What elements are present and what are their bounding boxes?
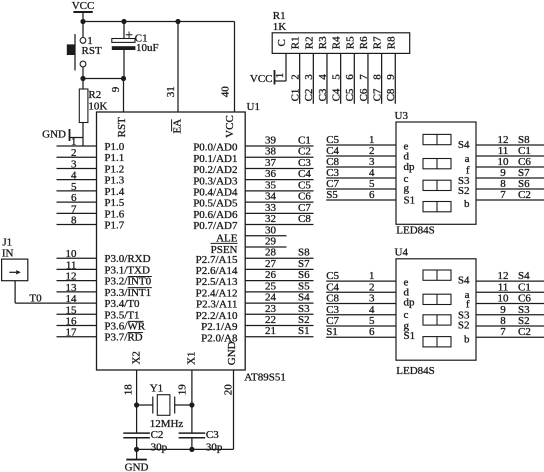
svg-text:C6: C6: [298, 191, 311, 203]
element label R3 (rotated, in R1): [317, 36, 329, 49]
node C2 (pin 38): [298, 146, 311, 158]
connector J1: [2, 259, 28, 281]
pin label S4 (U4): [458, 275, 470, 287]
svg-text:dp: dp: [404, 161, 416, 173]
svg-text:2: 2: [71, 147, 77, 159]
svg-text:34: 34: [265, 191, 277, 203]
resistor R2 10K: [79, 79, 107, 147]
wire pin 28 stub: [245, 247, 313, 259]
svg-text:2: 2: [289, 74, 301, 80]
svg-text:7: 7: [500, 189, 506, 201]
svg-text:Y1: Y1: [150, 382, 163, 394]
label J1: [2, 236, 12, 248]
wire pin 26 stub: [245, 269, 313, 281]
svg-text:17: 17: [66, 327, 78, 339]
svg-text:1: 1: [369, 270, 375, 282]
svg-text:C2: C2: [518, 326, 531, 338]
pin label P1.3: [104, 175, 124, 187]
svg-text:P2.2/A10: P2.2/A10: [196, 310, 238, 322]
svg-text:10K: 10K: [88, 101, 107, 113]
pin name X2 (rotated): [131, 351, 143, 364]
wire pin 35 stub: [245, 179, 313, 191]
node C5 (U3 pin 1): [326, 134, 339, 146]
wire pin 17 stub: [57, 327, 97, 339]
svg-text:P3.4/T0: P3.4/T0: [104, 298, 140, 310]
svg-text:4: 4: [71, 170, 77, 182]
pin label S3 (U4): [458, 309, 470, 321]
pin label P0.4/AD4: [193, 186, 238, 198]
pin label c (U3): [404, 173, 409, 185]
wire U4 pin 12: [476, 270, 544, 282]
svg-text:R7: R7: [372, 36, 384, 49]
node C4 (U4 pin 2): [326, 281, 339, 293]
node C4 (U3 pin 2): [326, 145, 339, 157]
label U1: [247, 101, 260, 113]
svg-text:40: 40: [219, 86, 231, 98]
svg-text:2: 2: [369, 281, 375, 293]
node S6 (U3 pin 8): [518, 178, 530, 190]
label R1: [273, 10, 286, 22]
pin label g (U3): [404, 182, 410, 194]
svg-text:C7: C7: [371, 88, 383, 101]
wire pin 33 stub: [245, 202, 313, 214]
svg-text:AT89S51: AT89S51: [244, 372, 286, 384]
svg-text:38: 38: [265, 146, 277, 158]
svg-text:P2.1/A9: P2.1/A9: [201, 321, 238, 333]
svg-text:C3: C3: [317, 88, 329, 101]
node S1 (U4 pin 6): [326, 326, 338, 338]
pin label e (U3): [404, 141, 409, 153]
pin label P0.6/AD6: [193, 209, 238, 221]
pin label b (U4): [464, 334, 470, 346]
svg-text:30p: 30p: [151, 442, 168, 454]
element label R7 (rotated, in R1): [372, 36, 384, 49]
svg-text:C8: C8: [385, 88, 397, 101]
pin label P3.7/RD: [104, 332, 143, 344]
svg-text:18: 18: [123, 384, 135, 396]
svg-text:C1: C1: [289, 89, 301, 102]
svg-text:VCC: VCC: [72, 0, 95, 12]
node S1 (pin 21): [298, 325, 310, 337]
svg-text:S4: S4: [458, 275, 470, 287]
label LED84S (U4): [396, 365, 435, 377]
svg-text:20: 20: [223, 384, 235, 396]
junction at VCC rail and C1: [121, 19, 126, 24]
svg-text:4: 4: [317, 74, 329, 80]
node S5 (U3 pin 6): [326, 189, 338, 201]
svg-text:26: 26: [265, 269, 277, 281]
svg-text:C5: C5: [326, 270, 339, 282]
wire J1 to T0: [14, 280, 16, 282]
svg-text:P1.1: P1.1: [104, 152, 124, 164]
node C5 (rotated label): [344, 88, 356, 101]
svg-text:19: 19: [177, 384, 189, 396]
pin label P0.0/AD0: [193, 142, 238, 154]
svg-text:11: 11: [498, 281, 509, 293]
svg-text:16: 16: [66, 316, 78, 328]
display U4 body LED84S: [396, 259, 476, 360]
pushbutton S1 RST: [67, 22, 102, 79]
wire T0 from J1 to pin 14: [15, 281, 96, 305]
pin label P3.4/T0: [104, 298, 140, 310]
svg-text:S4: S4: [458, 139, 470, 151]
svg-text:R4: R4: [331, 36, 343, 49]
svg-text:37: 37: [265, 157, 277, 169]
svg-text:C3: C3: [326, 304, 339, 316]
node C3 (U3 pin 4): [326, 167, 339, 179]
svg-text:g: g: [404, 182, 410, 194]
svg-text:U3: U3: [395, 110, 409, 122]
svg-text:S3: S3: [298, 303, 310, 315]
wire pin 36 stub: [245, 168, 313, 180]
svg-text:12: 12: [66, 271, 77, 283]
svg-text:C2: C2: [303, 89, 315, 102]
svg-text:R5: R5: [344, 36, 356, 49]
svg-text:6: 6: [369, 326, 375, 338]
wire R1 pin 4: [317, 53, 329, 103]
pin label P0.3/AD3: [193, 175, 238, 187]
svg-text:S7: S7: [298, 258, 310, 270]
node C8 (pin 32): [298, 213, 311, 225]
svg-text:9: 9: [385, 74, 397, 80]
svg-text:R2: R2: [88, 89, 101, 101]
svg-text:S2: S2: [458, 320, 470, 332]
wire pin 7 stub: [57, 203, 97, 215]
pin label dp (U3): [404, 161, 416, 173]
svg-text:b: b: [464, 198, 470, 210]
pin label e (U4): [404, 276, 409, 288]
element label R2 (rotated, in R1): [303, 36, 315, 49]
svg-text:S8: S8: [298, 247, 310, 259]
pin label f (U4): [466, 299, 470, 311]
wire U3 pin 10: [476, 156, 544, 168]
wire R1 pin 7: [358, 53, 370, 103]
svg-text:P1.5: P1.5: [104, 197, 124, 209]
svg-text:10: 10: [498, 293, 510, 305]
wire R1 pin 5: [330, 53, 342, 103]
wire pin 23 stub: [245, 303, 313, 315]
node T0: [29, 293, 42, 305]
svg-text:GND: GND: [226, 341, 238, 365]
wire pin 12 stub: [57, 271, 97, 283]
svg-text:5: 5: [330, 74, 342, 80]
wire pin 10 stub: [57, 248, 97, 260]
svg-text:28: 28: [265, 247, 277, 259]
svg-text:10: 10: [66, 248, 78, 260]
svg-text:9: 9: [500, 304, 506, 316]
pin label g (U4): [404, 320, 410, 332]
wire pin 38 stub: [245, 146, 313, 158]
wire R1 pin 6: [344, 53, 356, 103]
svg-text:S1: S1: [404, 330, 416, 342]
wire pin 4 stub: [57, 170, 97, 182]
svg-text:P1.3: P1.3: [104, 175, 124, 187]
node C3 (U4 pin 4): [326, 304, 339, 316]
pin label P0.7/AD7: [193, 220, 238, 232]
wire U4 pin 4: [326, 304, 396, 316]
element label R5 (rotated, in R1): [344, 36, 356, 49]
svg-text:P1.4: P1.4: [104, 186, 124, 198]
svg-text:24: 24: [265, 292, 277, 304]
svg-text:C5: C5: [344, 88, 356, 101]
node C4 (pin 36): [298, 168, 311, 180]
pin label P2.4/A12: [196, 287, 238, 299]
svg-text:30p: 30p: [206, 442, 223, 454]
wire pin 8 stub: [57, 215, 97, 227]
svg-text:R3: R3: [317, 36, 329, 49]
svg-text:3: 3: [71, 158, 77, 170]
op-amp U1 body AT89S51: [97, 112, 246, 370]
label U3: [395, 110, 409, 122]
svg-text:7: 7: [358, 74, 370, 80]
svg-text:3: 3: [303, 74, 315, 80]
wire U4 pin 1: [326, 270, 396, 282]
svg-text:GND: GND: [42, 129, 66, 141]
wire pin 22 stub: [245, 314, 313, 326]
node S2 (pin 22): [298, 314, 310, 326]
wire U3 pin 12: [476, 134, 544, 146]
svg-text:C5: C5: [298, 179, 311, 191]
wire pin 13 stub: [57, 282, 97, 294]
svg-text:P1.0: P1.0: [104, 141, 124, 153]
wire U4 pin 10: [476, 293, 544, 305]
node C6 (rotated label): [358, 88, 370, 101]
element label R4 (rotated, in R1): [331, 36, 343, 49]
svg-text:29: 29: [265, 235, 277, 247]
node S8 (U3 pin 12): [518, 134, 530, 146]
svg-text:10uF: 10uF: [136, 42, 159, 54]
svg-text:C2: C2: [151, 429, 164, 441]
wire U3 pin 1: [326, 134, 396, 146]
node C1 (pin 39): [298, 135, 311, 147]
svg-text:ALE: ALE: [216, 232, 238, 244]
pin label P3.6/WR: [104, 321, 145, 333]
wire pin 31 EA: [165, 22, 178, 113]
svg-text:S1: S1: [298, 325, 310, 337]
wire pin 29 stub: [245, 235, 286, 247]
pin label P0.2/AD2: [193, 164, 237, 176]
pin label S2 (U3): [458, 185, 470, 197]
svg-text:31: 31: [165, 86, 177, 97]
wire U4 pin 6: [326, 326, 396, 338]
svg-text:5: 5: [369, 315, 375, 327]
svg-text:35: 35: [265, 179, 277, 191]
pin label P1.2: [104, 163, 124, 175]
svg-text:P0.1/AD1: P0.1/AD1: [193, 153, 237, 165]
junction at VCC rail and EA pin 31: [175, 19, 180, 24]
svg-text:7: 7: [71, 203, 77, 215]
node C2 (rotated label): [303, 89, 315, 102]
wire pin 3 stub: [57, 158, 97, 170]
svg-text:P3.5/T1: P3.5/T1: [104, 309, 139, 321]
svg-text:GND: GND: [125, 462, 149, 472]
node S4 (pin 24): [298, 292, 310, 304]
svg-text:1: 1: [71, 136, 77, 148]
node C7 (pin 33): [298, 202, 311, 214]
junction at VCC rail and S1: [80, 19, 85, 24]
wire pin 37 stub: [245, 157, 313, 169]
pin label d (U3): [404, 151, 410, 163]
svg-text:X2: X2: [131, 351, 143, 364]
node C2 (U4 pin 7): [518, 326, 531, 338]
pin label P2.3/A11: [196, 299, 237, 311]
svg-text:9: 9: [110, 86, 122, 92]
capacitor C2 30p: [123, 429, 167, 454]
label IN: [2, 247, 14, 259]
svg-text:32: 32: [265, 213, 276, 225]
svg-text:C6: C6: [358, 88, 370, 101]
pin label d (U4): [404, 286, 410, 298]
svg-text:+: +: [125, 27, 133, 42]
wire pin 15 stub: [57, 304, 97, 316]
pin name EA (rotated, overlined): [172, 119, 184, 134]
wire U3 pin 4: [326, 167, 396, 179]
capacitor C1 10uF: [112, 22, 159, 79]
pin label a (U4): [465, 289, 470, 301]
wire U3 pin 8: [476, 178, 544, 190]
node C6 (U3 pin 10): [518, 156, 531, 168]
svg-text:6: 6: [344, 74, 356, 80]
svg-text:8: 8: [371, 74, 383, 80]
wire R1 pin 1: [274, 53, 286, 81]
svg-text:C2: C2: [518, 189, 531, 201]
pin label S2 (U4): [458, 320, 470, 332]
pin label P3.0/RXD: [104, 253, 150, 265]
svg-text:P0.2/AD2: P0.2/AD2: [193, 164, 237, 176]
svg-text:S5: S5: [326, 189, 338, 201]
svg-text:P2.5/A13: P2.5/A13: [196, 276, 238, 288]
node C8 (U3 pin 3): [326, 156, 339, 168]
wire U4 pin 9: [476, 304, 544, 316]
svg-text:25: 25: [265, 280, 277, 292]
svg-text:C4: C4: [298, 168, 311, 180]
svg-text:23: 23: [265, 303, 277, 315]
label LED84S (U3): [396, 225, 435, 237]
pin name GND (rotated): [226, 341, 238, 365]
pin label b (U3): [464, 198, 470, 210]
node C4 (rotated label): [330, 88, 342, 101]
svg-text:S4: S4: [518, 270, 530, 282]
pin label P1.1: [104, 152, 124, 164]
svg-text:R2: R2: [303, 36, 315, 49]
node C8 (rotated label): [385, 88, 397, 101]
ground GND (bottom): [125, 449, 149, 472]
svg-text:VCC: VCC: [250, 73, 273, 85]
svg-text:C2: C2: [298, 146, 311, 158]
node C5 (U4 pin 1): [326, 270, 339, 282]
node S7 (pin 27): [298, 258, 310, 270]
node C1 (rotated label): [289, 89, 301, 102]
label U4: [395, 246, 409, 258]
wire pin 2 stub: [57, 147, 97, 159]
wire pin 34 stub: [245, 191, 313, 203]
node C8 (U4 pin 3): [326, 293, 339, 305]
wire bottom ground rail: [137, 448, 234, 450]
svg-text:8: 8: [71, 215, 77, 227]
junction C3 at ground rail: [189, 447, 194, 452]
svg-text:12: 12: [498, 270, 509, 282]
svg-text:4: 4: [369, 304, 375, 316]
svg-text:P0.6/AD6: P0.6/AD6: [193, 209, 238, 221]
junction S1-R2 node: [80, 76, 85, 81]
svg-text:15: 15: [66, 304, 78, 316]
pin label P2.6/A14: [196, 265, 238, 277]
svg-text:P0.5/AD5: P0.5/AD5: [193, 198, 238, 210]
element label R6 (rotated, in R1): [358, 36, 370, 49]
svg-text:P3.6/WR: P3.6/WR: [104, 321, 145, 333]
svg-text:S2: S2: [298, 314, 310, 326]
svg-text:C3: C3: [206, 429, 219, 441]
wire pin 6 stub: [57, 192, 97, 204]
wire R1 pin 2: [289, 53, 301, 103]
pin label P1.7: [104, 220, 124, 232]
svg-text:P0.3/AD3: P0.3/AD3: [193, 175, 238, 187]
svg-text:LED84S: LED84S: [396, 365, 435, 377]
wire U3 pin 7: [476, 189, 544, 201]
node S4 (U4 pin 12): [518, 270, 530, 282]
node S7 (U3 pin 9): [518, 167, 530, 179]
svg-text:U4: U4: [395, 246, 409, 258]
svg-text:27: 27: [265, 258, 277, 270]
svg-text:T0: T0: [29, 293, 42, 305]
power symbol VCC (R1 common): [250, 70, 275, 85]
wire pin 11 stub: [57, 259, 97, 271]
svg-text:P2.4/A12: P2.4/A12: [196, 287, 238, 299]
svg-text:R1: R1: [290, 36, 302, 49]
pin label ALE: [216, 232, 238, 244]
svg-text:6: 6: [369, 189, 375, 201]
svg-text:IN: IN: [2, 247, 14, 259]
svg-text:VCC: VCC: [224, 115, 236, 138]
svg-text:C8: C8: [326, 293, 339, 305]
node S8 (pin 28): [298, 247, 310, 259]
capacitor C3 30p: [179, 429, 223, 454]
svg-text:21: 21: [265, 325, 276, 337]
pin label S4 (U3): [458, 139, 470, 151]
wire pin 30 stub: [245, 224, 286, 236]
pin label P3.3/INT1: [104, 287, 151, 299]
wire U3 pin 5: [326, 178, 396, 190]
wire U4 pin 11: [476, 281, 544, 293]
wire U3 pin 6: [326, 189, 396, 201]
svg-text:22: 22: [265, 314, 276, 326]
pin label dp (U4): [404, 297, 416, 309]
svg-text:P3.7/RD: P3.7/RD: [104, 332, 142, 344]
wire pin 39 stub: [245, 135, 313, 147]
wire U4 pin 7: [476, 326, 544, 338]
node C1 (U4 pin 11): [518, 281, 531, 293]
svg-text:P3.0/RXD: P3.0/RXD: [104, 253, 150, 265]
pin number 9: [110, 86, 122, 92]
pin label S1 (U3): [404, 194, 416, 206]
node C7 (rotated label): [371, 88, 383, 101]
element label C (rotated, in R1): [276, 39, 288, 46]
resistor network R1 body: [272, 33, 410, 54]
svg-text:LED84S: LED84S: [396, 225, 435, 237]
junction C2 at ground rail: [134, 447, 139, 452]
svg-text:1: 1: [274, 73, 286, 79]
crystal Y1 12MHz: [137, 382, 192, 430]
svg-text:33: 33: [265, 202, 277, 214]
pin label P2.5/A13: [196, 276, 238, 288]
value 1K: [273, 21, 287, 33]
svg-text:S4: S4: [298, 292, 310, 304]
svg-text:P0.4/AD4: P0.4/AD4: [193, 186, 238, 198]
node S5 (pin 25): [298, 280, 310, 292]
display U3 body LED84S: [396, 122, 476, 224]
svg-text:14: 14: [66, 293, 78, 305]
svg-text:C7: C7: [298, 202, 311, 214]
